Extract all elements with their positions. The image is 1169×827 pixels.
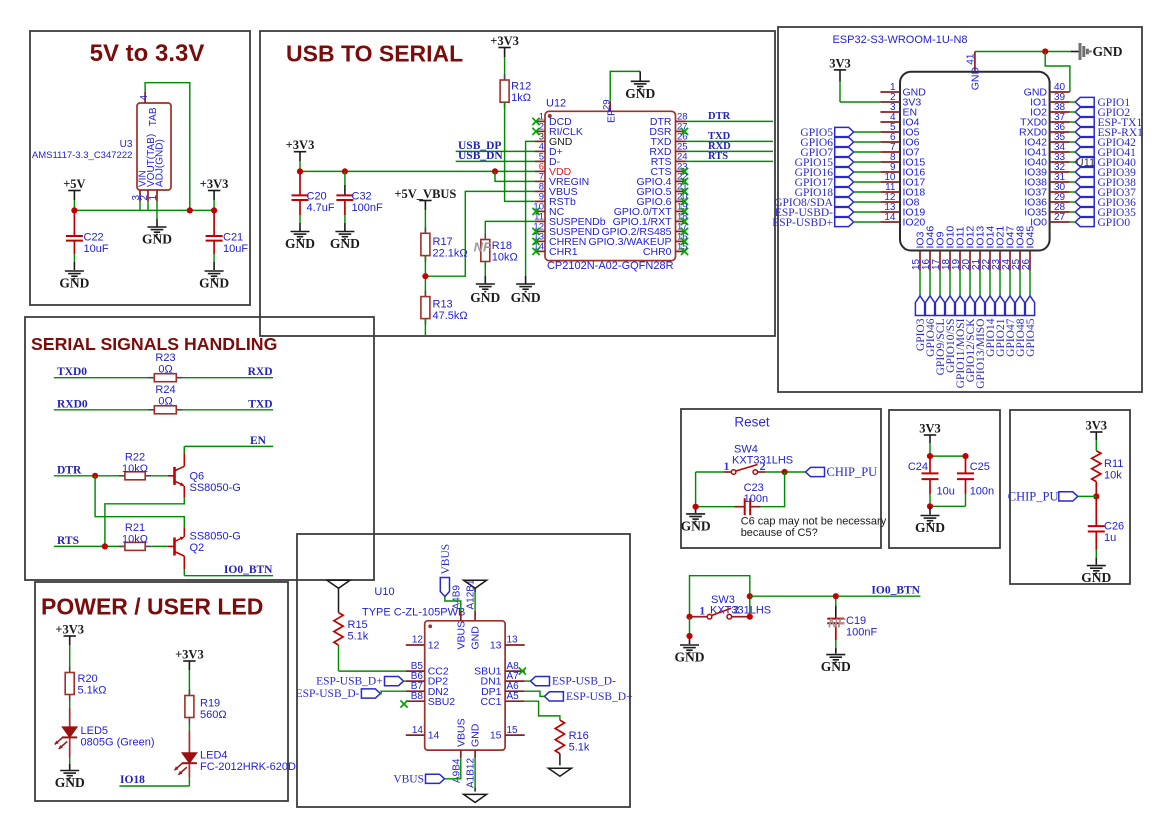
svg-text:RTS: RTS — [708, 151, 728, 162]
power flag 3V3 (ESP32) — [829, 56, 851, 81]
IC U12 CP2102N-A02-GQFN28R — [545, 98, 676, 273]
wire EN — [184, 445, 273, 447]
wire GPIO14 — [989, 271, 991, 296]
wire GPIO36 — [1070, 201, 1076, 203]
svg-text:14: 14 — [884, 212, 896, 223]
svg-text:GND: GND — [285, 236, 315, 251]
label KXT331LHS (SW4) — [732, 455, 793, 467]
svg-text:VBUS: VBUS — [440, 544, 452, 575]
wire GPIO11/MOSI — [959, 271, 961, 296]
wire LED4 to IO18 — [119, 763, 189, 786]
hier label GPIO3 — [915, 296, 927, 351]
svg-text:SERIAL SIGNALS HANDLING: SERIAL SIGNALS HANDLING — [31, 334, 277, 354]
resistor R24 0ohm — [148, 384, 182, 414]
svg-text:R21: R21 — [125, 522, 145, 534]
svg-text:0805G (Green): 0805G (Green) — [81, 737, 155, 749]
svg-text:+3V3: +3V3 — [490, 34, 519, 48]
junction R17/R13 tap — [422, 273, 428, 279]
ESP32 pin 32 IO39 — [1024, 162, 1069, 178]
svg-text:R16: R16 — [569, 730, 589, 742]
svg-text:IO20: IO20 — [903, 217, 926, 229]
wire SW4 gnd rail — [695, 472, 697, 513]
wire LED5 to GND — [69, 738, 71, 771]
pin 1 ADJ stub — [148, 190, 159, 201]
svg-text:EP: EP — [606, 109, 618, 123]
svg-text:2: 2 — [733, 603, 739, 617]
resistor R18 10k (NF) — [474, 234, 518, 268]
resistor R11 10k — [1092, 440, 1124, 482]
svg-text:C22: C22 — [84, 232, 104, 244]
svg-text:+5V: +5V — [63, 177, 85, 191]
capacitor C19 100nF (NF) — [827, 596, 877, 653]
svg-text:GND: GND — [59, 276, 89, 291]
wire VOUT to rail — [147, 201, 149, 210]
svg-text:ESP-USBD+: ESP-USBD+ — [772, 217, 833, 229]
svg-text:GND: GND — [681, 518, 711, 533]
svg-text:GND: GND — [470, 723, 482, 747]
hier label GPIO9/SCL — [935, 296, 947, 376]
svg-text:Q2: Q2 — [190, 542, 205, 554]
ESP32 pin 3 EN — [880, 102, 917, 118]
svg-text:ESP-USB_D-: ESP-USB_D- — [552, 676, 616, 688]
svg-text:1: 1 — [148, 195, 159, 201]
svg-text:SBU2: SBU2 — [428, 696, 456, 708]
wire SW3 terminals — [692, 616, 747, 618]
wire +3V3 stem — [213, 200, 215, 210]
svg-text:ESP-USB_D+: ESP-USB_D+ — [316, 676, 383, 688]
hier label GPIO47 — [1005, 296, 1017, 357]
ground below C19 — [821, 655, 851, 675]
U12 pin 23 CTS — [651, 162, 689, 178]
svg-text:R23: R23 — [155, 352, 175, 364]
hier label GPIO8/SDA — [774, 197, 853, 209]
gnd triangle below R16 — [548, 768, 571, 776]
ESP32 pin 1 GND — [880, 82, 926, 98]
ESP32 pin 21 IO13 — [971, 226, 987, 271]
hier label GPIO48 — [1015, 296, 1027, 357]
hier label GPIO46 — [925, 296, 937, 357]
wire DTR — [54, 475, 125, 477]
svg-text:10kΩ: 10kΩ — [122, 463, 148, 475]
wire C23 left — [696, 506, 735, 508]
svg-text:12: 12 — [428, 640, 440, 652]
ground below U12 GND pin — [511, 284, 541, 305]
label KXT331LHS (SW3) — [710, 605, 771, 617]
U12 pin 12 SUSPEND — [532, 222, 600, 238]
hier label GPIO13/MISO — [975, 296, 987, 389]
U12 pin 19 GPIO.0/TXT — [614, 202, 688, 218]
wire GPIO2 — [1070, 111, 1076, 113]
hier label GPIO42 — [1075, 137, 1136, 149]
U10 pin 15 15 — [490, 725, 525, 742]
junction gnd rail — [693, 504, 699, 510]
wire GPIO6 — [854, 141, 881, 143]
ESP32 pin 26 IO45 — [1021, 226, 1037, 271]
svg-text:5.1k: 5.1k — [348, 631, 369, 643]
wire GPIO16 — [854, 171, 881, 173]
svg-text:3V3: 3V3 — [1086, 418, 1108, 432]
wire DTR — [686, 120, 774, 122]
net label TXD (out) — [248, 398, 272, 410]
wire SUSPENDb to R18 — [485, 221, 535, 239]
wire ESP-RX1 — [1070, 131, 1076, 133]
svg-text:IO0_BTN: IO0_BTN — [871, 584, 920, 596]
power flag 3V3 (R11) — [1086, 418, 1108, 440]
wire GPIO3 — [919, 271, 921, 296]
hier label GPIO7 — [800, 147, 853, 159]
wire EP to GND — [610, 71, 640, 101]
capacitor C25 100n — [957, 456, 994, 506]
net label RXD — [708, 141, 731, 152]
U10 pin A9B4 VBUS — [451, 718, 467, 783]
wire USB_DP — [456, 150, 535, 152]
resistor R21 10k — [119, 522, 168, 550]
svg-text:29: 29 — [602, 99, 613, 110]
svg-text:R13: R13 — [433, 299, 453, 311]
wire R17 to R13 — [424, 256, 426, 297]
wire TXD — [686, 140, 774, 142]
svg-text:IO45: IO45 — [1025, 226, 1037, 249]
wire C23 branch — [761, 472, 785, 507]
svg-text:TYPE C-ZL-105PWB: TYPE C-ZL-105PWB — [362, 607, 465, 619]
svg-text:DTR: DTR — [57, 464, 82, 476]
power flag +5V — [63, 177, 85, 200]
label U10 — [374, 586, 394, 598]
wire DTR cross to Q2 — [95, 476, 184, 527]
net label RTS — [708, 151, 728, 162]
svg-text:C20: C20 — [307, 191, 327, 203]
wire to VREGIN — [495, 171, 535, 181]
ESP32 pin 41 GND — [965, 52, 981, 91]
wire ESP-USBD- — [854, 211, 881, 213]
junction C25 top — [962, 453, 968, 459]
ESP32 pin 29 IO36 — [1024, 192, 1069, 208]
svg-text:GND: GND — [55, 775, 85, 790]
svg-text:R15: R15 — [348, 619, 368, 631]
no-connect SBU1 — [519, 668, 526, 675]
svg-text:GND: GND — [675, 650, 705, 665]
svg-text:14: 14 — [428, 730, 440, 742]
svg-text:LED4: LED4 — [200, 750, 228, 762]
ESP32 pin 15 IO3 — [911, 231, 927, 270]
svg-text:VBUS: VBUS — [393, 773, 424, 785]
wire GPIO10/SS — [949, 271, 951, 296]
svg-text:ESP32-S3-WROOM-1U-N8: ESP32-S3-WROOM-1U-N8 — [832, 34, 967, 46]
ESP32 pin 34 IO41 — [1024, 142, 1069, 158]
U12 pin 18 GPIO.1/RXT — [613, 212, 689, 228]
svg-text:EN: EN — [250, 435, 267, 447]
ESP32 pin 31 IO38 — [1024, 172, 1069, 188]
U10 pin A1B12 GND — [466, 723, 482, 788]
gnd triangle top (A12B1) — [464, 580, 487, 588]
wire VDD rail — [300, 161, 535, 171]
resistor R22 10k — [119, 452, 168, 480]
wire DP1 — [525, 691, 545, 696]
wire CC1 to R16 — [525, 701, 560, 720]
title SERIAL SIGNALS HANDLING — [31, 334, 277, 354]
svg-text:R19: R19 — [200, 698, 220, 710]
U12 pin 24 RTS — [651, 152, 688, 168]
wire GPIO1 — [1070, 101, 1076, 103]
svg-text:Q6: Q6 — [190, 471, 205, 483]
label SW4 — [734, 444, 758, 456]
wire Q2 collector to IO0_BTN — [184, 569, 273, 576]
svg-text:4.7uF: 4.7uF — [307, 202, 335, 214]
U12 pin 25 RXD — [649, 142, 687, 158]
svg-text:IO0_BTN: IO0_BTN — [224, 564, 273, 576]
junction C19 tap — [833, 593, 839, 599]
ESP32 pin 8 IO15 — [880, 152, 925, 168]
svg-text:R18: R18 — [492, 240, 512, 252]
ground below SW3 — [675, 645, 705, 665]
wire USB_DN — [456, 160, 535, 162]
svg-text:U12: U12 — [546, 98, 566, 110]
hier label GPIO38 — [1075, 177, 1136, 189]
hier label GPIO2 — [1075, 107, 1130, 119]
ESP32 pin 33 IO40 — [1024, 152, 1069, 168]
wire GPIO13/MISO — [979, 271, 981, 296]
svg-text:POWER / USER LED: POWER / USER LED — [41, 594, 263, 620]
wire +5V stem — [73, 200, 75, 210]
ESP32 pin 23 IO21 — [991, 226, 1007, 271]
ESP32 pin 6 IO6 — [880, 132, 919, 148]
junction RTS tap — [102, 543, 108, 549]
wire GPIO5 — [854, 131, 881, 133]
svg-text:0Ω: 0Ω — [158, 364, 172, 376]
U10 pin 14 14 — [406, 725, 440, 742]
hier label GPIO36 — [1075, 197, 1136, 209]
note text C6 cap — [741, 516, 887, 539]
ESP32 pin 13 IO19 — [880, 202, 925, 218]
junction at C22 tap — [71, 207, 77, 213]
label U11 — [1076, 157, 1095, 169]
title USB TO SERIAL — [286, 41, 463, 67]
ESP32 pin 16 IO46 — [921, 226, 937, 271]
net label TXD — [708, 131, 731, 142]
U10 pin A4B9 VBUS — [451, 585, 467, 650]
svg-text:2: 2 — [760, 459, 766, 473]
svg-text:0Ω: 0Ω — [158, 396, 172, 408]
resistor R16 5.1k — [555, 720, 590, 754]
switch SW4 KXT331LHS — [724, 459, 766, 474]
power flag +5V_VBUS — [394, 187, 456, 210]
U10 pin B6 DP2 — [406, 671, 448, 688]
ESP32 pin 18 IO10 — [941, 226, 957, 271]
wire ESP-USBD+ — [854, 221, 881, 223]
hier label GPIO16 — [795, 167, 854, 179]
ESP32 pin 7 IO7 — [880, 142, 919, 158]
ESP32 pin 10 IO17 — [880, 172, 925, 188]
wire R15 to CC2 — [339, 645, 406, 671]
wire to gnd (box8) — [929, 506, 931, 514]
hier label ESP-TX1 — [1075, 117, 1142, 129]
svg-text:10k: 10k — [1104, 470, 1122, 482]
net label TXD0 — [57, 366, 87, 378]
power flag +3V3 (R19) — [175, 647, 204, 670]
capacitor C22 10uF — [66, 210, 109, 270]
ESP32 pin 28 IO35 — [1024, 202, 1069, 218]
U10 pin B8 SBU2 — [406, 691, 455, 708]
svg-text:AMS1117-3.3_C347222: AMS1117-3.3_C347222 — [32, 150, 133, 161]
wire GPIO8/SDA — [854, 201, 881, 203]
svg-text:560Ω: 560Ω — [200, 709, 227, 721]
hier label GPIO40 — [1075, 157, 1136, 169]
svg-text:B8: B8 — [411, 691, 424, 702]
wire A9B4 to VBUS flag — [445, 758, 461, 779]
svg-text:R17: R17 — [433, 236, 453, 248]
svg-text:15: 15 — [490, 730, 502, 742]
hier label ESP-USB_D+ (left) — [316, 676, 403, 688]
svg-text:C26: C26 — [1104, 521, 1124, 533]
ESP32 pin 40 GND — [1024, 82, 1070, 98]
ground below U3 — [142, 227, 172, 247]
wire SW3 to gnd — [689, 617, 691, 644]
svg-text:NF: NF — [474, 240, 492, 255]
wire GPIO41 — [1070, 151, 1076, 153]
svg-text:DTR: DTR — [708, 111, 731, 122]
net label USB_DP — [458, 140, 501, 152]
svg-text:12: 12 — [412, 635, 424, 646]
svg-text:13: 13 — [490, 640, 502, 652]
svg-text:because of C5?: because of C5? — [741, 527, 818, 539]
svg-text:13: 13 — [507, 635, 519, 646]
svg-text:3V3: 3V3 — [829, 56, 851, 70]
ESP32 pin 20 IO12 — [961, 226, 977, 271]
svg-text:GND: GND — [330, 236, 360, 251]
power flag +3V3 (R12) — [490, 34, 519, 57]
U12 pin 9 RSTb — [535, 192, 576, 208]
U12 pin 4 D+ — [535, 142, 563, 158]
svg-text:C32: C32 — [352, 191, 372, 203]
wire pin41 to GND symbol — [975, 51, 1071, 53]
wire 3V3 to caps — [930, 443, 966, 456]
hier label ESP-USB_D- (left) — [296, 688, 381, 700]
svg-text:+3V3: +3V3 — [175, 647, 204, 661]
wire GPIO35 — [1070, 211, 1076, 213]
svg-text:100n: 100n — [744, 493, 768, 505]
power flag +3V3 (VDD rail) — [286, 138, 315, 161]
U12 pin 26 TXD — [651, 132, 688, 148]
ground above U12 — [625, 81, 655, 101]
wire SW3 loop — [690, 576, 750, 617]
wire GPIO21 — [999, 271, 1001, 296]
ESP32 pin 35 IO42 — [1024, 132, 1069, 148]
svg-text:USB TO SERIAL: USB TO SERIAL — [286, 41, 463, 67]
wire TXD0 — [54, 377, 273, 379]
net label DTR — [57, 464, 82, 476]
resistor R13 47.5k — [421, 291, 468, 325]
junction VREGIN drop — [492, 168, 498, 174]
svg-text:C24: C24 — [908, 461, 928, 473]
U12 pin 27 DSR — [649, 122, 688, 138]
svg-text:1: 1 — [699, 604, 705, 618]
svg-text:VBUS: VBUS — [455, 718, 467, 747]
U12 pin 17 GPIO.2/RS485 — [601, 222, 688, 238]
gnd triangle above R15 — [327, 580, 350, 588]
wire GPIO46 — [929, 271, 931, 296]
svg-text:USB_DN: USB_DN — [458, 150, 503, 162]
ground below C22 — [59, 271, 89, 291]
svg-text:C6 cap may not be necessary: C6 cap may not be necessary — [741, 516, 887, 528]
label ESP32-S3-WROOM-1U-N8 — [832, 34, 967, 46]
wire GPIO42 — [1070, 141, 1076, 143]
gnd triangle bottom (A1B12) — [464, 794, 487, 802]
title POWER / USER LED — [41, 594, 263, 620]
switch SW3 KXT331LHS — [699, 603, 739, 619]
hier label GPIO11/MOSI — [955, 296, 967, 389]
svg-text:22.1kΩ: 22.1kΩ — [433, 248, 468, 260]
connector U10 body — [425, 621, 505, 750]
ESP32 pin 30 IO37 — [1024, 182, 1069, 198]
wire TAB to +3V3 rail — [145, 83, 190, 211]
svg-text:RXD0: RXD0 — [57, 398, 88, 410]
svg-text:15: 15 — [507, 725, 519, 736]
wire DN2 — [380, 691, 405, 693]
svg-text:ADJ(GND): ADJ(GND) — [155, 139, 166, 187]
svg-text:R24: R24 — [155, 384, 175, 396]
regulator U3 AMS1117-3.3 — [32, 103, 171, 190]
ESP32 pin 27 IO0 — [1030, 212, 1070, 228]
hier label ESP-RX1 — [1075, 127, 1143, 139]
U12 pin 14 CHR1 — [532, 242, 577, 258]
hier label GPIO41 — [1075, 147, 1136, 159]
wire GPIO12/SCK — [969, 271, 971, 296]
U12 pin 28 DTR — [650, 112, 688, 128]
label SW3 — [711, 594, 735, 606]
svg-text:5V to 3.3V: 5V to 3.3V — [90, 40, 205, 67]
svg-text:C19: C19 — [846, 615, 866, 627]
svg-text:GND: GND — [969, 67, 981, 91]
wire VIN to +5V rail — [139, 201, 141, 210]
svg-text:10uF: 10uF — [223, 243, 248, 255]
wire DN1 — [525, 680, 531, 682]
capacitor C23 100n — [735, 482, 769, 515]
U10 pin B5 CC2 — [406, 661, 449, 678]
wire GPIO0 — [1070, 221, 1076, 223]
ESP32 pin 36 RXD0 — [1019, 122, 1070, 138]
ESP32 pin 5 IO5 — [880, 122, 919, 138]
wire Q6 emitter cross — [105, 498, 184, 547]
svg-text:+3V3: +3V3 — [200, 177, 229, 191]
wire VBUS top — [445, 597, 461, 611]
hier label ESP-USB_D+ (right) — [544, 691, 632, 703]
junction SW3 io0 tap — [747, 593, 753, 599]
title 5V to 3.3V — [90, 40, 205, 67]
svg-text:R22: R22 — [125, 452, 145, 464]
net label RXD — [248, 366, 273, 378]
hier label GPIO0 — [1075, 217, 1130, 229]
svg-text:LED5: LED5 — [81, 725, 109, 737]
svg-text:SS8050-G: SS8050-G — [190, 531, 241, 543]
svg-text:10uF: 10uF — [84, 243, 109, 255]
hier label GPIO15 — [795, 157, 854, 169]
wire GPIO18 — [854, 191, 881, 193]
hier label GPIO35 — [1075, 207, 1136, 219]
U12 pin 21 GPIO.5 — [636, 182, 688, 198]
svg-text:NF: NF — [828, 616, 846, 631]
wire GPIO7 — [854, 151, 881, 153]
net label IO0_BTN (box4) — [224, 564, 273, 576]
junction GND net — [1042, 48, 1048, 54]
transistor Q2 SS8050-G — [168, 527, 241, 569]
junction at C20 — [297, 168, 303, 174]
wire ESP-TX1 — [1070, 121, 1076, 123]
junction caps gnd — [927, 503, 933, 509]
U12 pin 8 VBUS — [535, 182, 578, 198]
U10 pin A5 CC1 — [480, 691, 524, 708]
U10 pin 13 13 — [490, 635, 525, 652]
svg-text:+5V_VBUS: +5V_VBUS — [394, 187, 456, 201]
